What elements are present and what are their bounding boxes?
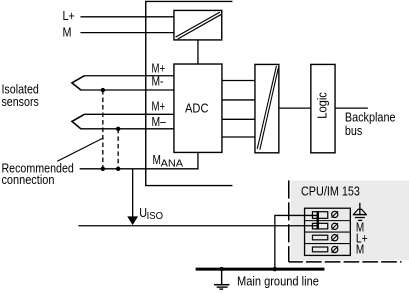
- svg-text:Logic: Logic: [315, 92, 329, 119]
- dashed shield wire 1 (recommended connection): [102, 90, 104, 169]
- wire channel1 M-: [80, 89, 174, 91]
- svg-text:connection: connection: [1, 173, 54, 187]
- functional earth symbol at terminal 1: [353, 203, 367, 221]
- serial link ADC line 1: [222, 80, 255, 82]
- serial link ADC line 3: [222, 118, 255, 120]
- svg-text:ISO: ISO: [147, 211, 164, 222]
- terminal 2 contact: [312, 223, 327, 229]
- terminal 4 contact: [312, 247, 327, 252]
- terminal 2 screw: [332, 223, 338, 229]
- node on channel1 M-: [101, 88, 105, 92]
- svg-text:M-: M-: [151, 74, 163, 88]
- wire channel2 M-: [80, 128, 174, 130]
- wire L+: [80, 16, 174, 18]
- node ground stub: [219, 267, 223, 271]
- terminal 1 contact: [312, 212, 327, 219]
- jumper terminal 1 to terminal 2: [317, 211, 319, 229]
- leader line to dashed wires: [57, 138, 103, 161]
- dc-dc converter (power isolation): [174, 10, 222, 39]
- CPU/IM 153 dashed boundary: [288, 180, 290, 261]
- svg-text:ADC: ADC: [185, 100, 208, 115]
- ADC U1: [174, 64, 222, 152]
- arrowhead UISO: [127, 216, 138, 225]
- node on channel2 M-: [116, 127, 120, 131]
- node shield 2 on MANA wire: [116, 167, 120, 171]
- sensor 2 (isolated sensor, channel 2): [72, 114, 85, 128]
- galvanic isolation barrier: [255, 64, 279, 152]
- wire ground riser to terminal 1: [275, 215, 319, 267]
- logic block: [311, 64, 335, 152]
- CPU/IM 153 module shaded area: [291, 180, 409, 260]
- wire UISO equipotential line to terminal 2: [78, 225, 318, 227]
- sensor 1 (isolated sensor, channel 1): [72, 76, 85, 90]
- terminal 1 screw: [332, 211, 338, 217]
- svg-text:M–: M–: [151, 115, 165, 129]
- svg-text:CPU/IM 153: CPU/IM 153: [301, 183, 360, 198]
- svg-text:M+: M+: [151, 100, 165, 114]
- svg-text:Main ground line: Main ground line: [237, 273, 319, 288]
- svg-text:bus: bus: [345, 124, 362, 138]
- wire isolation to logic: [279, 107, 311, 109]
- node shield 1 on MANA wire: [101, 167, 105, 171]
- svg-text:M: M: [62, 25, 71, 39]
- svg-text:M: M: [356, 243, 364, 257]
- svg-text:ANA: ANA: [161, 158, 184, 169]
- terminal 3 contact: [312, 235, 327, 240]
- terminal 4 screw: [332, 246, 338, 252]
- wire MANA: [80, 152, 198, 168]
- svg-text:Backplane: Backplane: [345, 111, 396, 125]
- wire logic to backplane bus: [335, 107, 368, 109]
- svg-text:M+: M+: [151, 61, 165, 75]
- svg-text:M: M: [152, 153, 160, 167]
- wire channel1 M+: [84, 75, 174, 77]
- svg-text:sensors: sensors: [1, 95, 38, 109]
- wire M (supply): [80, 32, 174, 34]
- serial link ADC line 4: [222, 136, 255, 138]
- terminal block CPU: [305, 208, 351, 255]
- dashed shield wire 2 (recommended connection): [117, 129, 119, 169]
- wire dc-dc to ADC: [197, 40, 199, 64]
- svg-text:L+: L+: [62, 9, 74, 23]
- analog module boundary (open box): [146, 1, 233, 185]
- svg-text:Isolated: Isolated: [1, 82, 38, 96]
- wire UISO vertical with arrow: [132, 169, 134, 218]
- serial link ADC line 2: [222, 99, 255, 101]
- terminal 3 screw: [332, 235, 338, 241]
- node riser on bus: [273, 267, 277, 271]
- ground stub wire: [221, 269, 223, 285]
- wire channel2 M+: [84, 113, 174, 115]
- ground symbol: [214, 285, 229, 289]
- main ground line bus: [196, 268, 325, 271]
